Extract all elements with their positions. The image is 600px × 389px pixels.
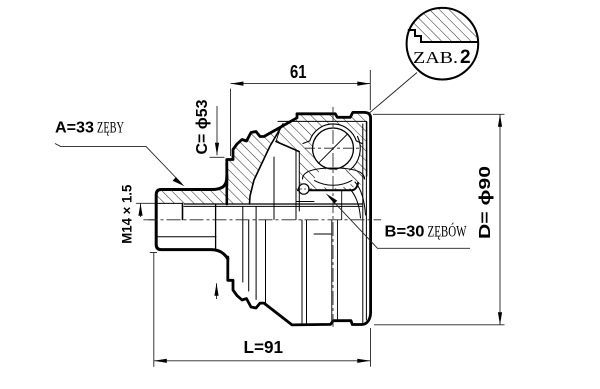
svg-text:B=30: B=30 [385,223,425,240]
svg-text:2: 2 [460,47,471,68]
svg-text:61: 61 [290,62,307,82]
svg-text:M14 × 1.5: M14 × 1.5 [119,185,135,244]
svg-text:A=33: A=33 [55,120,94,137]
svg-text:D= ϕ90: D= ϕ90 [477,166,494,239]
svg-text:C= ϕ53: C= ϕ53 [194,99,211,154]
svg-text:ZĘBÓW: ZĘBÓW [428,223,467,240]
svg-text:ZAB.: ZAB. [413,48,458,67]
svg-text:ZĘBY: ZĘBY [97,120,124,137]
svg-text:L=91: L=91 [244,337,284,357]
